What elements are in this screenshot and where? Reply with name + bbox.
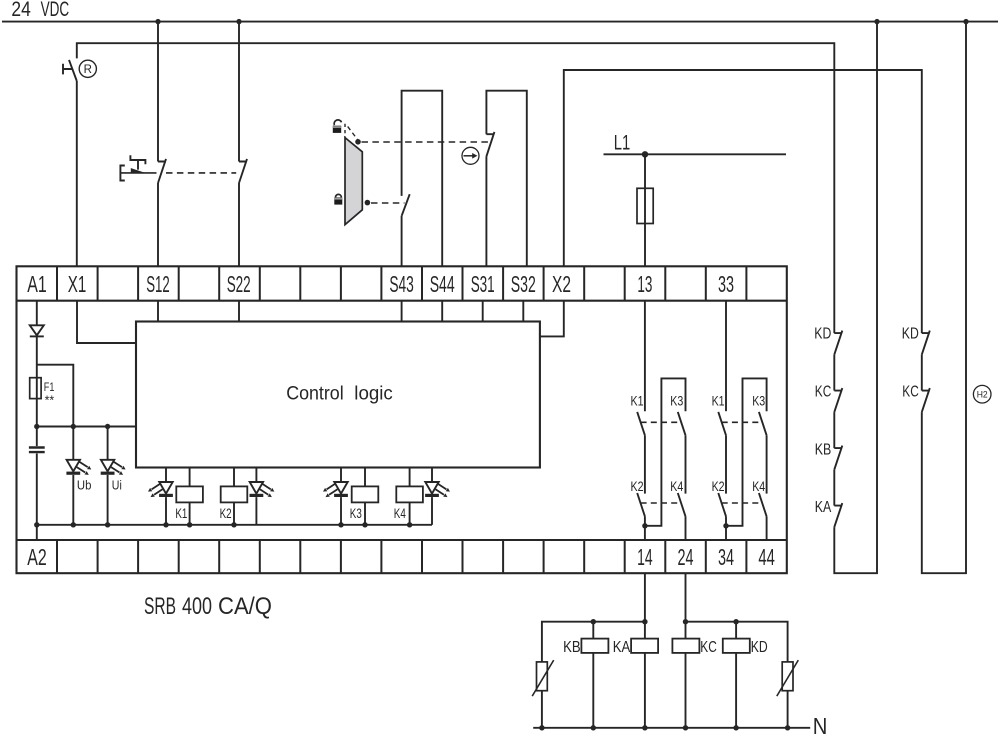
wire K4 to terminal 24 bbox=[685, 516, 687, 540]
wire branch up-over to K3 K4 bbox=[645, 378, 686, 525]
wire S43 up-over to S44 bbox=[402, 91, 443, 267]
wire junction row to control box bbox=[37, 426, 136, 428]
wire X1 riser bbox=[76, 81, 78, 266]
wire X1 into control box left side bbox=[77, 301, 136, 343]
wire fuse to terminal 13 bbox=[644, 224, 646, 267]
svg-text:KC: KC bbox=[700, 639, 717, 656]
svg-text:KD: KD bbox=[814, 326, 831, 343]
svg-text:Ui: Ui bbox=[112, 478, 122, 493]
wire S44 into control box bbox=[441, 301, 443, 322]
chain right: contact KD bbox=[922, 331, 930, 355]
actuator e-stop latch wedge bbox=[131, 169, 144, 173]
contact K1 (left group) bbox=[637, 412, 645, 435]
chain right: wire KD-KC bbox=[921, 355, 923, 391]
junction dots A2 bus bbox=[34, 522, 39, 527]
junction dot A1 row 3 bbox=[105, 424, 110, 429]
wire between K1 K2 contacts bbox=[644, 435, 646, 493]
wire branch X1-aux to Ub bbox=[37, 365, 74, 460]
LED K3 indicator bbox=[340, 468, 342, 483]
contact K3 (left group) bbox=[678, 412, 686, 435]
contact K2 (right group) bbox=[718, 493, 726, 516]
svg-text:R: R bbox=[84, 64, 92, 76]
coil KD external bbox=[735, 622, 737, 639]
coil K2 bbox=[233, 468, 235, 487]
wire dashed K1-K3 link bbox=[641, 421, 682, 423]
icon padlock open bbox=[334, 120, 341, 125]
junction dot S12 on 24VDC rail bbox=[155, 19, 160, 24]
junction dot A1 row 1 bbox=[34, 424, 39, 429]
coil K1 bbox=[189, 468, 191, 487]
coil KB external bbox=[592, 622, 594, 639]
symbol actuation direction (circle arrow) bbox=[462, 147, 479, 164]
varistor left bbox=[537, 662, 548, 691]
lamp H2 bbox=[973, 385, 991, 403]
svg-text:K1: K1 bbox=[631, 392, 644, 408]
terminal strip dividers top row bbox=[57, 266, 746, 300]
svg-text:K1: K1 bbox=[175, 505, 187, 521]
icon padlock closed bbox=[336, 194, 342, 197]
wire 24 below strip bbox=[685, 573, 687, 622]
svg-text:SRB: SRB bbox=[144, 593, 176, 620]
svg-text:KA: KA bbox=[815, 499, 832, 516]
coil KA external bbox=[644, 622, 646, 639]
diode A1 input bbox=[30, 325, 44, 335]
svg-text:KC: KC bbox=[815, 384, 832, 401]
wire diode to fuse F1 bbox=[36, 336, 38, 377]
svg-text:CA/Q: CA/Q bbox=[218, 593, 272, 620]
contact reset R (NO) bbox=[69, 60, 77, 81]
terminal strip module outline bbox=[17, 266, 787, 573]
svg-text:K4: K4 bbox=[670, 478, 683, 494]
svg-text:L1: L1 bbox=[614, 130, 631, 154]
svg-text:KB: KB bbox=[815, 441, 832, 458]
wire K2 to terminal 34 bbox=[725, 516, 727, 540]
wire A1 to diode bbox=[36, 301, 38, 326]
svg-text:**: ** bbox=[45, 393, 55, 408]
svg-text:VDC: VDC bbox=[41, 0, 70, 21]
svg-text:K2: K2 bbox=[631, 478, 644, 494]
wire fuse to junction bbox=[36, 399, 38, 447]
LED Ui bbox=[101, 460, 126, 475]
wire K2 to terminal 14 bbox=[644, 516, 646, 540]
terminal strip bottom row top line bbox=[17, 539, 787, 541]
svg-text:44: 44 bbox=[758, 544, 775, 570]
chain left: wire KB-KA bbox=[833, 470, 835, 506]
junction dot L1 bbox=[642, 151, 648, 157]
svg-text:400: 400 bbox=[182, 593, 212, 620]
svg-text:33: 33 bbox=[718, 271, 734, 297]
junction dot 34 bbox=[723, 523, 728, 528]
junction dot A1 row 2 bbox=[71, 424, 76, 429]
contact K1 (right group) bbox=[718, 412, 726, 435]
svg-text:X1: X1 bbox=[68, 271, 87, 297]
wire Ui to bus bbox=[107, 475, 109, 525]
wire 33 riser to K1 contact (right group) bbox=[725, 301, 727, 412]
junction dot right chain on 24VDC rail bbox=[963, 19, 968, 24]
wire capacitor to bus bbox=[36, 454, 38, 541]
wire branch to Ui bbox=[107, 427, 109, 460]
svg-text:K1: K1 bbox=[712, 392, 725, 408]
coil K3 bbox=[364, 468, 366, 487]
svg-text:S43: S43 bbox=[389, 271, 414, 297]
chain left: bottom U bbox=[834, 22, 877, 574]
wire S31 below contact bbox=[485, 156, 487, 266]
contact door S43 (NO) bbox=[402, 194, 410, 216]
chain left: contact KA bbox=[834, 503, 842, 527]
wire S31 into control box bbox=[482, 301, 484, 322]
wire 14 below strip bbox=[644, 573, 646, 622]
contact e-stop S12 (NC) bbox=[158, 159, 166, 183]
node door top dot bbox=[355, 139, 361, 145]
svg-text:14: 14 bbox=[637, 544, 653, 570]
wire S43 into control box bbox=[401, 301, 403, 322]
wire A2 bus bbox=[37, 524, 432, 526]
wire K4 to terminal 44 bbox=[766, 516, 768, 540]
labels terminal bottom row bbox=[27, 544, 775, 570]
box control logic bbox=[136, 322, 540, 468]
svg-text:Control: Control bbox=[286, 384, 344, 405]
svg-text:K4: K4 bbox=[752, 478, 765, 494]
contact door S31 (NC) bbox=[486, 132, 494, 157]
wire Ub to bus bbox=[72, 475, 74, 525]
node door bottom dot bbox=[365, 200, 371, 206]
wire coil bus left bbox=[542, 622, 645, 662]
wire S22 drop from rail bbox=[238, 22, 240, 162]
svg-text:K4: K4 bbox=[394, 505, 406, 521]
node 24VDC supply rail bbox=[2, 21, 998, 23]
wire dashed padlock to door corner bbox=[344, 124, 346, 137]
svg-text:S31: S31 bbox=[471, 271, 495, 297]
terminal strip dividers bottom row bbox=[57, 540, 746, 573]
terminal strip top row bottom line bbox=[17, 300, 787, 302]
wire X2 into control box right side bbox=[541, 301, 564, 337]
wire L1 to fuse bbox=[644, 154, 646, 188]
chain left: contact KB bbox=[834, 446, 842, 470]
svg-text:24: 24 bbox=[11, 0, 30, 21]
svg-text:K3: K3 bbox=[752, 392, 765, 408]
wire between K3 K4 right bbox=[766, 435, 768, 493]
wire reset circuit top corner to right rail bbox=[77, 43, 835, 333]
LED K4 indicator bbox=[431, 468, 433, 483]
wire S32 into control box bbox=[522, 301, 524, 322]
LED Ub bbox=[66, 460, 91, 475]
wire dashed padlock to door contact dot bbox=[348, 127, 358, 141]
wire branch up-over to K3 K4 right bbox=[726, 378, 767, 525]
wire between contacts right group bbox=[725, 435, 727, 493]
wire S12 drop from rail bbox=[157, 22, 159, 162]
wire dashed K2-K4 link bbox=[641, 502, 682, 504]
labels terminal top row bbox=[27, 271, 734, 297]
junction dots coil bus bbox=[591, 619, 596, 624]
junction dots N line bbox=[539, 725, 544, 730]
svg-text:K3: K3 bbox=[350, 505, 362, 521]
wire S43 below contact bbox=[401, 216, 403, 267]
svg-text:S22: S22 bbox=[227, 271, 251, 297]
svg-text:K3: K3 bbox=[670, 392, 683, 408]
wire dashed door to S43 contact bbox=[371, 202, 405, 204]
svg-text:K2: K2 bbox=[712, 478, 725, 494]
svg-text:S32: S32 bbox=[511, 271, 536, 297]
wire dashed K1-K3 link right bbox=[722, 421, 763, 423]
wire S12 into control box bbox=[157, 301, 159, 322]
svg-text:24: 24 bbox=[678, 544, 694, 570]
svg-text:S44: S44 bbox=[430, 271, 455, 297]
guard door panel bbox=[345, 138, 362, 225]
chain right: bottom U bbox=[922, 22, 966, 574]
actuator pushbutton of R bbox=[63, 64, 72, 75]
svg-text:X2: X2 bbox=[552, 271, 571, 297]
varistor right bbox=[782, 662, 793, 691]
svg-text:S12: S12 bbox=[146, 271, 170, 297]
svg-text:13: 13 bbox=[637, 271, 652, 297]
contact K4 (left group) bbox=[678, 493, 686, 516]
svg-text:34: 34 bbox=[718, 544, 734, 570]
wire S12 to terminal bbox=[157, 183, 159, 266]
chain left: contact KD bbox=[834, 331, 842, 355]
chain right: contact KC bbox=[922, 388, 930, 412]
wire S31 up-over to S32 bbox=[486, 91, 526, 267]
node L1 line bbox=[604, 153, 787, 155]
svg-text:KD: KD bbox=[751, 639, 768, 656]
contact K3 (right group) bbox=[759, 412, 767, 435]
svg-text:N: N bbox=[813, 713, 828, 738]
actuator e-stop mushroom head bbox=[130, 155, 145, 169]
LED K2 indicator bbox=[255, 468, 257, 483]
svg-text:KB: KB bbox=[563, 639, 581, 656]
wire 13 riser to K1 contact bbox=[644, 301, 646, 412]
wire e-stop actuator link (dashed) bbox=[166, 172, 236, 174]
wire e-stop actuator link (solid) bbox=[120, 172, 156, 174]
contact e-stop S22 (NC) bbox=[239, 159, 247, 183]
wire dashed K2-K4 link right bbox=[722, 502, 763, 504]
junction dot left chain on 24VDC rail bbox=[874, 19, 879, 24]
coil K4 bbox=[409, 468, 411, 487]
coil KC external bbox=[685, 622, 687, 639]
fuse line fuse bbox=[644, 188, 646, 223]
svg-text:K2: K2 bbox=[220, 505, 232, 521]
capacitor bbox=[29, 446, 45, 448]
chain left: contact KC bbox=[834, 388, 842, 412]
svg-text:logic: logic bbox=[354, 384, 393, 405]
contact K2 (left group) bbox=[637, 493, 645, 516]
wire X2 riser up-over to right chain bbox=[564, 70, 922, 333]
svg-text:KD: KD bbox=[902, 326, 919, 343]
svg-text:KC: KC bbox=[902, 384, 919, 401]
chain left: wire KC-KB bbox=[833, 412, 835, 448]
contact K4 (right group) bbox=[759, 493, 767, 516]
fuse F1 bbox=[36, 378, 38, 399]
svg-text:A2: A2 bbox=[27, 544, 47, 570]
svg-text:H2: H2 bbox=[977, 389, 988, 399]
chain left: wire KD-KC bbox=[833, 355, 835, 391]
svg-text:Ub: Ub bbox=[77, 478, 92, 493]
actuator e-stop bracket bbox=[120, 166, 124, 181]
wire dashed door to S31 contact bbox=[362, 141, 490, 143]
junction dot S22 on 24VDC rail bbox=[236, 19, 241, 24]
LED K1 indicator bbox=[165, 468, 167, 483]
label circle R bbox=[79, 60, 96, 77]
junction dot 14 bbox=[642, 523, 647, 528]
wire coil bus right bbox=[686, 622, 788, 662]
svg-text:KA: KA bbox=[613, 639, 631, 656]
wire between K3 K4 contacts bbox=[685, 435, 687, 493]
node N line bbox=[533, 727, 810, 729]
wire S22 to terminal bbox=[238, 183, 240, 266]
wire S22 into control box bbox=[238, 301, 240, 322]
svg-text:A1: A1 bbox=[27, 271, 47, 297]
